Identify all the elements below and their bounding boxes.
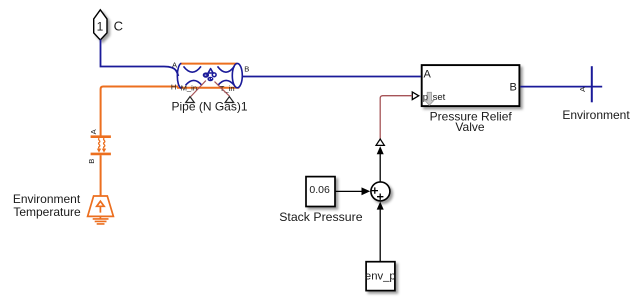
sum block (371, 182, 390, 201)
wire: convective B to temperature source (orange) (100, 155, 102, 196)
svg-text:env_p: env_p (365, 271, 396, 283)
convective heat transfer block (orange) (91, 137, 111, 154)
sum plus bottom (377, 194, 383, 200)
PS connection open triangle (376, 139, 384, 145)
wire: env_p to sum (signal, black) (379, 209, 381, 262)
pipe T_in stub wire (215, 82, 230, 97)
svg-text:Stack Pressure: Stack Pressure (279, 210, 363, 224)
svg-text:A: A (424, 69, 432, 81)
0.06 constant block (306, 177, 335, 207)
pipe right end ellipse (232, 63, 242, 87)
svg-text:A: A (89, 128, 98, 134)
inport 1 (connection port C) (94, 10, 107, 40)
pipe left end arc (177, 63, 181, 88)
environment cross mark (591, 66, 593, 102)
valve p_set input port triangle (412, 92, 418, 100)
svg-text:B: B (510, 82, 517, 94)
wire: port1 to pipe A (gas, blue) (101, 40, 179, 77)
pressure relief valve block (422, 65, 520, 106)
pipe meniscus arcs (184, 66, 235, 85)
svg-text:Valve: Valve (455, 120, 484, 134)
bottom plate (91, 153, 111, 156)
valve p_set grey arrow icon (425, 92, 434, 105)
wire: 0.06 to sum (signal, black) (336, 190, 362, 192)
svg-text:Environment: Environment (13, 192, 81, 206)
top plate (91, 135, 111, 138)
svg-text:B: B (87, 159, 96, 164)
wire: sum to valve p_set (physical signal, dark red) (380, 96, 412, 140)
pipe gas molecule dots (203, 69, 216, 81)
pipe M_in stub wire (191, 81, 206, 97)
svg-text:0.06: 0.06 (309, 184, 330, 196)
pipe bottom wall (177, 87, 239, 89)
trapezoid body (88, 196, 114, 216)
wavy heat arrows (99, 138, 100, 148)
wire: pipe H to convective A (thermal, orange) (101, 87, 178, 137)
pipe (N Gas)1 icon (177, 63, 242, 88)
svg-text:A: A (172, 61, 178, 70)
arrow inside (97, 201, 104, 212)
env_p block (366, 262, 395, 291)
wire: pipe B to valve A (gas, blue) (242, 76, 420, 78)
svg-text:1: 1 (97, 19, 104, 33)
svg-text:Temperature: Temperature (13, 205, 81, 219)
svg-text:M_in: M_in (181, 84, 197, 93)
svg-text:Environment: Environment (562, 108, 630, 122)
svg-text:C: C (114, 19, 123, 34)
wavy arrowheads (97, 149, 101, 153)
wire: sum output up arrow (signal, black) (379, 153, 381, 182)
svg-text:p: p (423, 92, 428, 103)
pipe top wall (181, 63, 237, 65)
svg-text:B: B (244, 64, 249, 73)
wire: valve B to environment (gas, blue) (520, 86, 602, 88)
svg-text:set: set (433, 92, 446, 103)
ground hatch lines (93, 219, 109, 224)
svg-text:H: H (171, 83, 176, 92)
temperature source block (orange) (88, 196, 114, 224)
sum plus left (372, 187, 378, 193)
svg-text:Pipe (N Gas)1: Pipe (N Gas)1 (171, 99, 247, 113)
pipe T_in open port triangle (225, 97, 234, 103)
pipe M_in open port triangle (186, 97, 195, 103)
ground stub (99, 216, 101, 219)
